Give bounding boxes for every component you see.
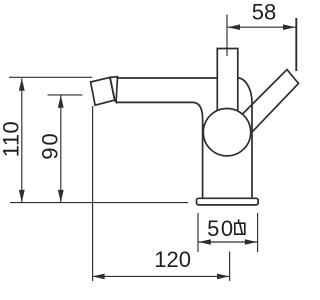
arrowhead dim 110 down xyxy=(19,190,25,203)
dim 58: centerline extension above spout xyxy=(226,15,228,57)
label 50 square symbol glyph xyxy=(235,219,245,234)
spout arm bottom edge with fillet into body column left edge xyxy=(116,102,203,198)
dim 120: right extension line at body centerline xyxy=(229,252,231,282)
svg-text:58: 58 xyxy=(252,0,276,25)
arrowhead dim 50 right xyxy=(245,239,257,245)
arrowhead dim 120 right xyxy=(217,274,229,280)
dim 58: dimension line xyxy=(228,26,296,28)
svg-text:50: 50 xyxy=(207,216,234,241)
deck / mounting plane line xyxy=(10,202,188,204)
svg-text:90: 90 xyxy=(37,131,62,159)
aerator square (tilted) xyxy=(91,77,115,105)
arrowhead dim 58 right xyxy=(283,24,295,30)
arrowhead dim 120 left xyxy=(92,274,104,280)
dim 120: dimension line xyxy=(92,275,229,277)
base plate xyxy=(197,198,259,205)
cartridge pipe (vertical) with top cap xyxy=(217,49,238,114)
shoulder arc and body column right edge xyxy=(238,78,252,198)
arrowhead dim 110 up xyxy=(19,78,25,91)
dim 110: dimension line xyxy=(21,79,23,203)
dim 110: top extension line at spout top level xyxy=(9,76,92,78)
dim 50: dimension line xyxy=(198,241,257,243)
arrowhead dim 50 left xyxy=(198,239,210,245)
arrowhead dim 90 up xyxy=(58,95,64,108)
spout arm top edge xyxy=(117,77,218,79)
dim 58: right extension line from handle tip xyxy=(295,18,297,71)
dim 90: top tick reference line xyxy=(48,94,83,96)
arrowhead dim 58 left xyxy=(228,24,240,30)
dim 90: dimension line xyxy=(60,96,62,203)
aerator joint strip xyxy=(110,77,118,102)
svg-text:120: 120 xyxy=(154,247,191,272)
dim 50: right extension line xyxy=(257,213,259,252)
dim 120: left extension line from aerator corner xyxy=(92,106,94,281)
handle lever (45deg rectangle, lower end hidden by body circle) xyxy=(241,70,299,135)
valve body circle xyxy=(203,109,250,156)
arrowhead dim 90 down xyxy=(58,190,64,203)
dim 50: left extension line xyxy=(197,213,199,252)
svg-text:110: 110 xyxy=(0,121,23,158)
